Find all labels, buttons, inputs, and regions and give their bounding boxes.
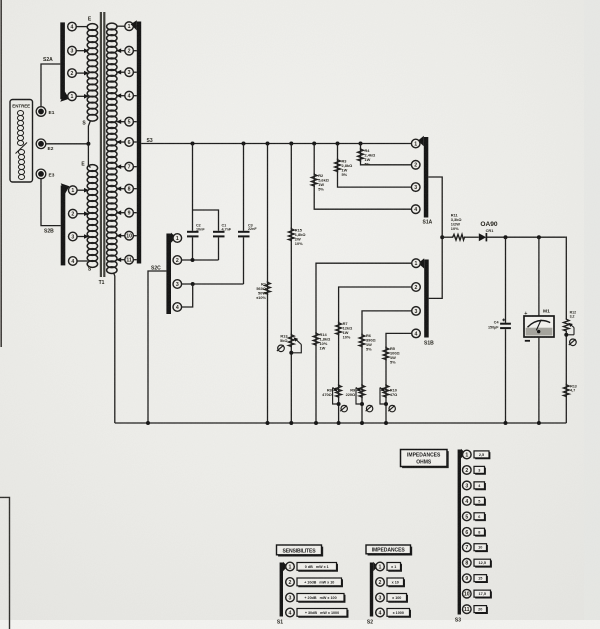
node R9 wiper junction [360,402,364,406]
label R2 value [318,173,329,192]
label S (primary bottom end) [88,267,92,273]
switch S2B bar [61,186,66,266]
S3 value box 11 [474,606,487,614]
switch S2 bar (table) [370,563,373,617]
wire rail to C4 [505,237,507,323]
R10 adjustment screw [388,405,395,411]
secondary tap contact 8 [125,184,134,193]
wire R12 to rail [565,332,567,423]
label E1 [49,110,55,116]
S1B contact 3 [412,307,421,316]
secondary tap contact 10 [125,231,134,240]
wire R4 branch to S1A contact 2 [361,144,412,165]
R8 adjustment screw [340,405,347,411]
node bottom rail junction [537,421,541,425]
wire R3 branch to S1A contact 3 [338,144,412,188]
switch S3 bar (table) [458,450,461,615]
label R7 value [343,321,353,340]
switch S1 bar (table) [280,563,283,617]
node R13 wiper junction [289,351,293,355]
node bus junction [266,142,270,146]
node R8 wiper junction [337,402,341,406]
wire secondary tap 8 [117,188,125,190]
wire rail corner down right column [565,237,568,318]
switch S3 table wedge [461,449,466,459]
secondary tap contact 3 [125,68,134,77]
S2B contact 3 [69,232,78,241]
secondary tap contact 2 [125,46,134,55]
S3 value box 1 [474,451,490,459]
resistor R1 [265,281,271,295]
R9 adjustment screw [366,405,373,411]
S1B contact 4 [412,329,421,338]
S1 position 2 [286,578,295,587]
S2C contact 3 [173,280,182,289]
resistor R15 [289,228,295,242]
wire S2A tap [76,95,87,97]
wire S3 pole bus to S1A contact 1 [141,143,411,145]
trimmer resistor R10 [383,384,389,398]
S3 value box 6 [474,528,485,536]
node C2 junction [191,258,195,262]
wire S1A pole to S1B pole [428,177,442,298]
resistor R3 [335,159,341,173]
S1A contact 1 [411,139,420,148]
R8 wiper [333,388,339,405]
label E3 [49,173,55,179]
switch S2C wiper wedge [171,233,176,243]
wire secondary tap 3 [117,71,125,73]
wire E2 to transformer midpoint [46,143,89,145]
S2B contact 2 [69,209,78,218]
wire S2B tap [77,189,88,191]
S3 value box 9 [474,575,487,583]
S3 position 6 [463,528,472,537]
label R13b value [570,385,576,393]
wire secondary tap 6 [117,141,125,143]
IMPEDANCES OHMS title box [401,450,449,468]
node bottom rail junction [146,421,150,425]
meter + polarity [524,311,527,317]
S1B contact 2 [412,283,421,292]
R12 adjustment screw [569,339,576,346]
wire meter to bottom rail [538,337,540,423]
S1A contact 4 [411,205,420,214]
label S (primary top end) [82,121,86,127]
R12 wiper [573,328,575,335]
node bottom rail junction [337,421,341,425]
wire E1 to S2A pole [41,64,60,107]
S3 value box 7 [474,544,487,552]
wire branch to C1 [193,210,219,231]
label R3 value [342,159,353,178]
wire S1B contact 3 through R6 R9 to rail [362,311,412,423]
wire bus to C3 [243,144,245,231]
node detector junction [440,235,444,239]
label R6 value [366,333,376,352]
transformer T1 primary bottom winding [87,165,97,268]
node bottom rail junction [266,421,270,425]
label R15 value [295,228,306,247]
adjacent figure corner [0,497,10,629]
S2A contact 2 [68,69,77,78]
wire secondary S end to bottom rail [114,273,115,424]
S2A contact 1 [68,92,77,101]
wire C2 bottom [192,237,194,260]
node bottom rail junction [289,421,293,425]
capacitor C2 [187,232,199,237]
S3 value box 3 [474,482,485,490]
trimmer resistor R8 [336,384,342,398]
S2A contact 3 [68,46,77,55]
wire bus through R15/R13 to rail [290,144,292,424]
S1 value box 3 [297,594,345,603]
label C4 value [488,320,499,329]
S3 position 4 [463,497,472,506]
wire C1 bottom [218,237,220,260]
meter M1 [524,316,554,337]
resistor R5 [383,347,389,361]
wire S2A tap [76,72,87,74]
switch S1A wiper wedge [418,136,424,146]
S2 position 4 [376,608,385,617]
wire secondary tap 4 [117,95,125,97]
label OA90 [480,221,498,228]
node contact4 tie junction [191,282,195,286]
R9 wiper [356,388,362,405]
S2 value box 4 [387,609,410,618]
resistor R4 [358,148,364,162]
node bus junction [289,142,293,146]
label C2 value [196,224,205,232]
node bottom rail junction [504,421,508,425]
label R4 value [365,148,376,167]
secondary tap contact 6 [125,138,134,147]
switch S2 wedge [373,562,378,572]
ENTREE coil symbol [17,111,23,146]
diode CR1 OA90 [479,233,486,241]
label S2 [367,620,373,626]
switch S3 wiper wedge [131,20,137,30]
resistor R14 [313,332,319,346]
wire secondary tap 2 [117,50,125,52]
S1 position 1 [286,562,295,571]
trimmer resistor R13 [289,334,295,348]
resistor R6 [359,334,365,348]
label R1 value [256,282,267,301]
label R9 value [346,388,356,398]
wire bottom rail [115,422,567,424]
wire secondary tap 7 [117,166,125,168]
label S2B [44,229,54,235]
S3 position 8 [463,558,472,567]
wire R11 to diode [466,236,479,238]
S2 position 2 [376,578,385,587]
S2 position 3 [376,593,385,602]
wire S2B tap [77,236,88,238]
label S1A [423,220,433,226]
R13 wiper [291,345,301,353]
wire to primary bottom E start [88,144,90,168]
S3 position 5 [463,512,472,521]
S2A contact 4 [68,22,77,31]
node M1 top junction [537,235,541,239]
IMPEDANCES title box [366,545,412,555]
wire S2C pole to bottom rail [148,271,166,423]
label S2C [151,266,161,272]
switch S1 wedge [283,562,288,572]
wire S1B contact 4 through R5 R10 to rail [386,333,412,423]
wire S2A tap [76,26,87,28]
transformer T1 secondary winding [107,23,117,273]
wire S2C contact 3 to C3 [182,283,244,285]
label R14 value [320,332,331,351]
wire diode to top right rail [486,236,565,238]
label R11 value [451,213,462,232]
wire C3 bottom [243,237,245,284]
S3 position 10 [463,589,472,598]
wire primary top S end down [88,121,90,144]
R13 adjustment screw [277,345,284,352]
trimmer resistor R12 [564,318,570,332]
node R10 wiper junction [384,402,388,406]
wire S1B contact 1 through R14 to rail [316,263,412,423]
wire bus to C2 [192,144,194,231]
transformer T1 core [101,12,104,277]
label R5 value [390,346,400,365]
S1B contact 1 [412,259,421,268]
S3 position 2 [463,466,472,475]
switch S1A bar [424,137,429,218]
secondary tap contact 7 [125,162,134,171]
resistor R7 [336,322,342,336]
wire C4 to bottom rail [505,329,507,423]
ENTREE input box [10,100,33,183]
S3 position 9 [463,574,472,583]
wire secondary tap 10 [117,235,125,237]
switch S2B wiper wedge [61,183,70,193]
wire secondary tap 1 [117,25,125,27]
node bottom rail junction [314,421,318,425]
S3 value box 8 [474,559,491,567]
wire secondary tap 11 [117,259,125,261]
node bus junction [191,142,195,146]
capacitor C1 [213,232,225,237]
meter - polarity [525,340,530,342]
switch S2A bar [60,22,65,99]
wire S2B tap [77,260,88,262]
node bus junction [312,142,316,146]
S2 value box 3 [387,594,407,603]
S2 position 1 [376,562,385,571]
secondary tap contact 11 [125,255,134,264]
node bottom rail junction [360,421,364,425]
label S1 [277,620,283,626]
secondary tap contact 9 [125,208,134,217]
input terminal E1 [36,107,46,117]
label R10 value [390,388,397,398]
label S3 [147,138,153,144]
label CR1 [486,228,495,233]
wire secondary tap 9 [117,212,125,214]
S2 value box 2 [387,578,404,587]
page left edge rule [0,0,2,347]
node bus junction [336,142,340,146]
wire rail to meter [538,237,540,316]
label R12 value [570,310,576,318]
S1A contact 2 [411,161,420,170]
S1 position 3 [286,593,295,602]
label E (primary bottom start) [81,162,85,168]
S2B contact 1 [69,186,78,195]
wire S1B contact 2 through R7 R8 to rail [339,287,412,423]
wire to R11 [442,236,451,238]
S2B contact 4 [69,257,78,266]
label R13 value [280,334,288,344]
secondary tap contact 5 [125,117,134,126]
S3 position 7 [463,543,472,552]
node bus junction [359,142,363,146]
label S3 (table) [455,618,461,624]
switch S2C bar [166,234,171,315]
capacitor C3 [238,232,250,237]
wire S2C contact 4 tie [182,284,193,307]
wire secondary tap 5 [117,121,125,123]
resistor R2 [311,173,317,187]
S1A contact 3 [411,183,420,192]
label R8 value [322,388,332,398]
node bottom rail junction [384,421,388,425]
resistor R11 [452,234,466,240]
S1 position 4 [286,608,295,617]
S3 value box 10 [474,590,491,598]
resistor R13b [564,384,570,398]
SENSIBILITES title box [277,545,323,556]
label C3 value [248,223,257,231]
node C4 top junction [504,235,508,239]
input terminal E3 [36,169,46,179]
secondary tap contact 4 [125,91,134,100]
wire E3 to S2B pole [41,179,61,226]
node bus junction [242,142,246,146]
label S1B [424,341,434,347]
trimmer resistor R9 [359,384,365,398]
S1 value box 4 [297,609,348,618]
wire bus through R1 to rail [267,144,269,424]
input terminal E2 [36,139,46,149]
S2 value box 1 [387,563,401,572]
label M1 [543,309,550,315]
capacitor C4 (electrolytic) [500,324,511,328]
transformer T1 primary top winding [87,24,97,122]
label E2 [48,146,54,152]
S3 position 11 [463,605,472,614]
wire R2 branch to S1A contact 4 [314,144,411,210]
switch S3 bar (main) [137,22,141,264]
label T1 [99,280,105,286]
S1 value box 1 [297,563,337,572]
S1 value box 2 [297,578,342,587]
S3 value box 4 [474,497,485,505]
wire S2B tap [77,213,88,215]
S3 value box 2 [474,466,485,474]
label C1 value [222,224,232,232]
switch S1B wiper wedge [418,258,424,268]
secondary tap contact 1 [125,22,134,31]
S3 value box 5 [474,513,485,521]
node R12 wiper junction [564,333,568,337]
switch S2A wiper wedge [60,92,69,102]
label E (primary top start) [88,17,92,23]
wire S2C contact 2 to C1/C2 [182,259,219,261]
S2C contact 2 [173,256,182,265]
R10 wiper [380,388,386,405]
wire S2A tap [76,50,87,52]
S2C contact 4 [173,303,182,312]
switch S1B bar [424,260,429,338]
S2C contact 1 [173,234,182,243]
S3 position 1 [463,450,472,459]
node primary midpoint junction [86,142,90,146]
S3 position 3 [463,481,472,490]
label S2A [43,57,53,63]
